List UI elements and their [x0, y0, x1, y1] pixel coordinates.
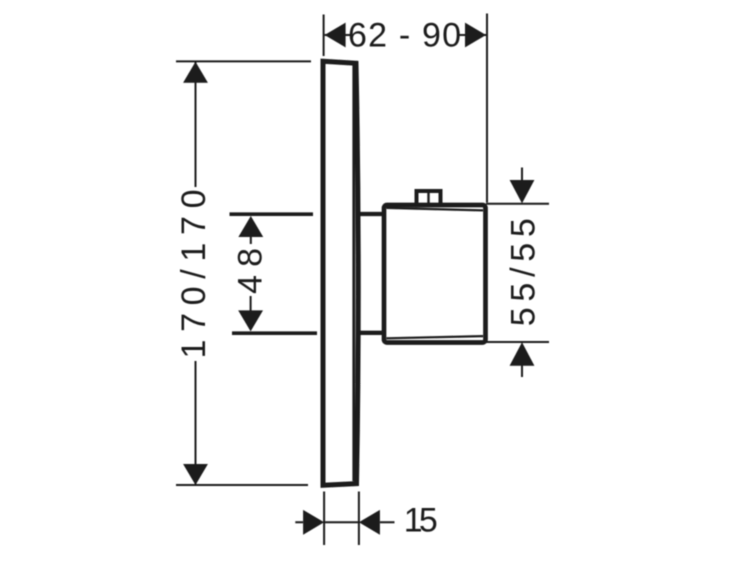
dim 170/170: bottom extension line [176, 484, 308, 486]
dim 62-90: line segments [325, 34, 486, 36]
connector stub bottom (plate to knob) [357, 331, 384, 335]
dim 62-90: right extension line [486, 14, 488, 203]
arrowhead 62-90 left [325, 23, 346, 48]
svg-text:15: 15 [404, 502, 438, 540]
dim 15: right extension line [358, 492, 360, 546]
connector stub top (plate to knob) [357, 212, 384, 216]
dim 62-90: left extension line [323, 15, 325, 57]
svg-text:55/55: 55/55 [505, 218, 543, 326]
arrowhead 15 right [359, 510, 380, 535]
arrowhead 62-90 right [465, 23, 486, 48]
arrowhead 48 bottom [238, 310, 263, 331]
dim 55/55: top extension line [486, 203, 549, 205]
arrowhead 170/170 bottom [183, 464, 208, 485]
dim 55/55: bottom extension line [486, 341, 549, 343]
arrowhead 48 top [238, 216, 263, 237]
arrowhead 55/55 top [510, 180, 535, 203]
knob inner bottom chamfer line [387, 336, 484, 338]
button on knob top [417, 191, 441, 205]
dim 48: bottom extension line [232, 331, 317, 335]
arrowhead 15 left [303, 510, 324, 535]
button divider [427, 192, 429, 204]
dim 48: top extension line [230, 212, 314, 216]
dim 15: dimension line and tails [295, 521, 394, 523]
arrowhead 170/170 top [183, 62, 208, 83]
dim 15: left extension line [323, 492, 325, 546]
svg-text:62 - 90: 62 - 90 [348, 17, 461, 55]
dim 48: dimension line segments [250, 236, 252, 312]
handle knob body [384, 205, 486, 343]
dim 170/170: top extension line [176, 60, 311, 62]
wall plate (escutcheon) side view: outer outline [323, 61, 358, 485]
dim 55/55: dimension line tails [521, 168, 523, 378]
knob inner top chamfer line [387, 208, 484, 211]
dim 170/170: dimension line segments [195, 62, 197, 485]
arrowhead 55/55 bottom [510, 342, 535, 366]
wall plate front-face inner contour [352, 66, 355, 482]
